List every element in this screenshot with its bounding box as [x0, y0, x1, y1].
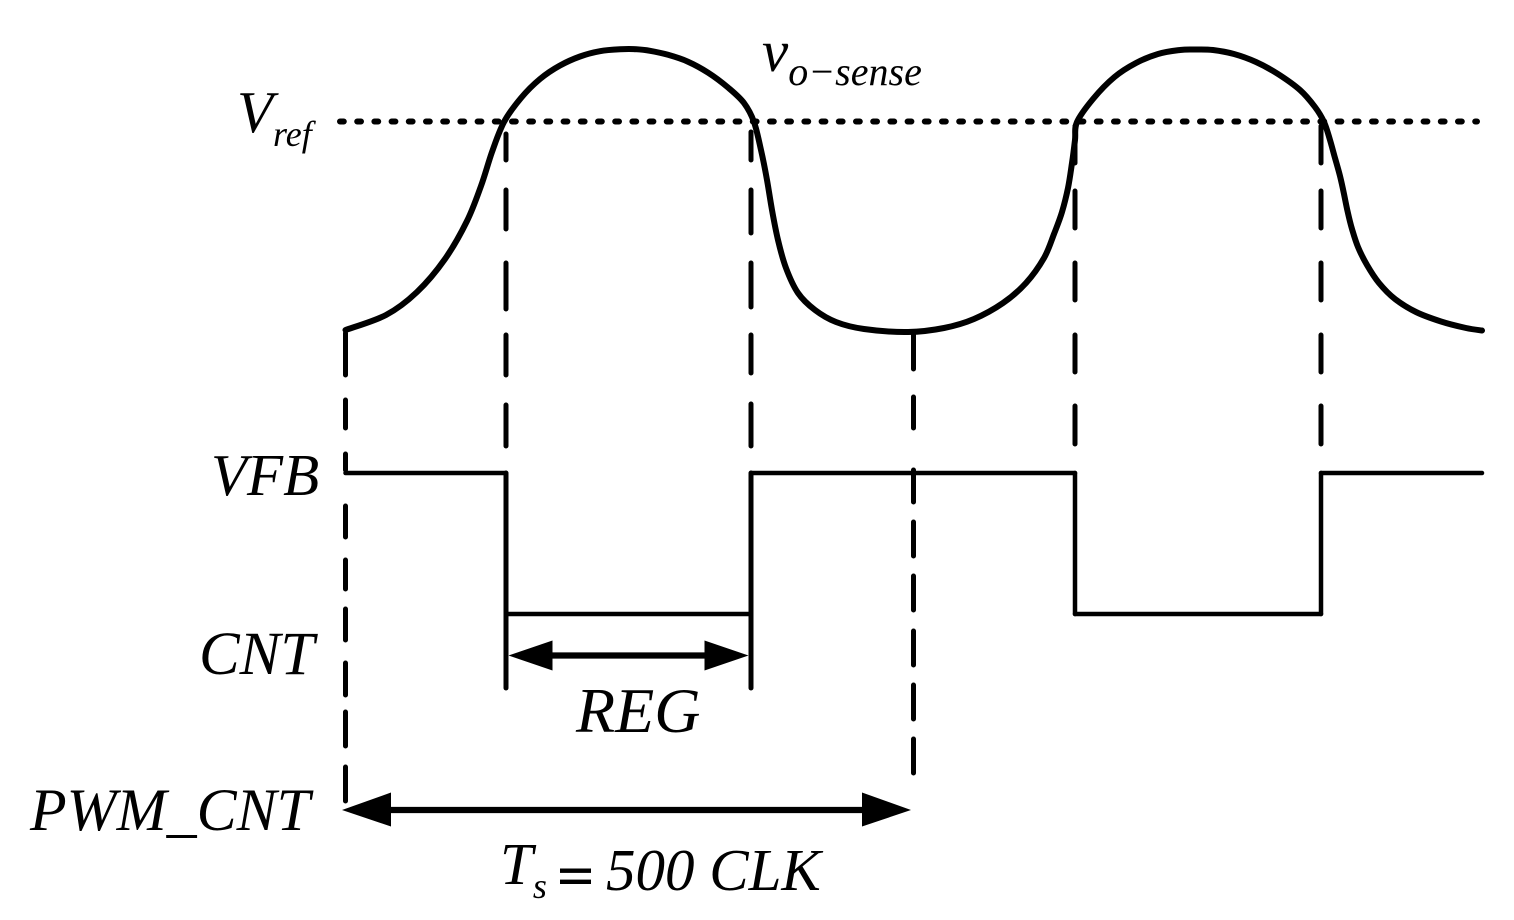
wire: dashed vertical line at x=1321: [1319, 126, 1324, 444]
wire: dashed vertical line at x=1075: [1073, 126, 1078, 444]
label vo-sense: [762, 17, 922, 95]
wire: VFB high segment 3: [1321, 471, 1482, 476]
label Vref: [237, 78, 312, 155]
label VFB: [211, 441, 319, 510]
REG measurement double arrow: [549, 652, 708, 658]
label 500 CLK: [606, 836, 821, 905]
label REG: [576, 674, 700, 748]
wire: dashed vertical line at REG start (x=506): [504, 134, 509, 446]
wire: VFB low segment 1: [506, 612, 751, 617]
wire: VFB high segment 1: [346, 471, 507, 476]
wire: VFB falling edge + tick at x=506: [504, 473, 509, 688]
wire: VFB falling edge at x=1075: [1073, 473, 1078, 614]
wire: dashed vertical line at t0 (x=345): [343, 333, 348, 801]
wire: dashed vertical line at REG end (x=751): [749, 132, 754, 446]
label PWM_CNT: [30, 776, 310, 845]
wire: VFB low segment 2: [1075, 612, 1321, 617]
equals sign of Ts equation: [560, 869, 591, 873]
wire: VFB high segment 2: [751, 471, 1075, 476]
PWM_CNT measurement double arrow (Ts span): [391, 807, 866, 813]
label Ts: [500, 830, 547, 907]
wire: VFB rising edge + tick at x=751: [749, 473, 754, 688]
label CNT: [199, 620, 314, 690]
Vref dotted threshold line: [340, 119, 1477, 125]
wire: dashed vertical line at Ts end (x=914): [911, 332, 916, 773]
wire: vo-sense waveform curve: [346, 49, 1483, 332]
wire: VFB rising edge at x=1321: [1319, 473, 1324, 614]
